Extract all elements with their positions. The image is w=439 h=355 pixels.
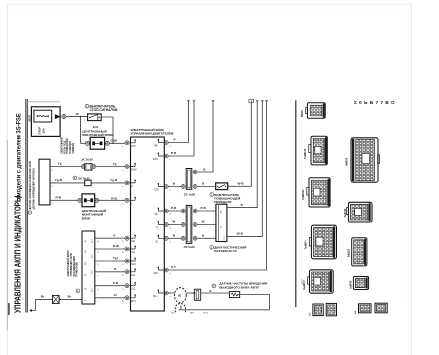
- svg-text:4: 4: [170, 190, 172, 191]
- wire junction drop to relay block R1: [80, 117, 82, 144]
- svg-text:5: 5: [123, 146, 125, 147]
- wire B ECU to DLC3: [168, 237, 216, 239]
- svg-text:9: 9: [97, 275, 99, 276]
- shield terminal box: [194, 289, 200, 300]
- page frame left border: [6, 4, 8, 355]
- connector pair right of relay block R1: [105, 141, 109, 145]
- circled 8 ДАТЧИК ЧАСТОТЫ ВРАЩЕНИЯ label: [212, 284, 216, 288]
- wire sensor to shield box: [186, 292, 194, 294]
- svg-text:W: W: [172, 220, 175, 224]
- connector view I: [352, 238, 367, 266]
- wire Gr meter to ECU: [95, 297, 125, 299]
- connector pair right of relay block R2: [95, 198, 99, 202]
- svg-text:РАЗЪЕМ DLC3: РАЗЪЕМ DLC3: [214, 249, 237, 253]
- svg-text:G-W: G-W: [110, 138, 116, 142]
- junction connector J/C No30 box: [85, 164, 92, 170]
- connector view H: [346, 202, 372, 222]
- svg-text:ПЕРЕДАЧИ: ПЕРЕДАЧИ: [214, 200, 232, 204]
- page frame inner right border: [407, 9, 409, 300]
- wire W-B DLC3 up: [227, 101, 262, 237]
- diagnostic connector DLC3 box: [216, 204, 227, 241]
- speed sensor SP1 dashed circle: [174, 288, 186, 303]
- engine control ECU box U1: [131, 137, 165, 311]
- fuse F1 symbol: [37, 115, 48, 117]
- overdrive main switch SW2: [216, 183, 228, 190]
- svg-text:ПРИБОРОВ): ПРИБОРОВ): [76, 262, 79, 277]
- wire P from ECU up: [168, 101, 188, 143]
- schematic left boundary double line: [25, 99, 27, 313]
- wire P-B ECU to DLC3: [168, 210, 216, 212]
- connector view J: [353, 277, 368, 290]
- connector pair right of J/C No30: [92, 165, 96, 169]
- svg-text:J/C №30: J/C №30: [81, 157, 93, 161]
- wire V-Y from ECU up: [168, 101, 266, 271]
- svg-text:Б⑧Д29: Б⑧Д29: [348, 248, 351, 257]
- svg-text:ВЫХОДНОГО ВАЛА АКПП: ВЫХОДНОГО ВАЛА АКПП: [219, 286, 259, 290]
- svg-text:18: 18: [123, 300, 125, 302]
- svg-text:R-B: R-B: [56, 195, 62, 199]
- svg-text:Ф⑧F29: Ф⑧F29: [345, 157, 348, 166]
- svg-text:W: W: [202, 220, 205, 224]
- connector view D: [309, 225, 336, 259]
- wire G-W from relay block to ECU: [81, 142, 125, 144]
- stop lamp switch SW1 blade: [89, 117, 90, 118]
- ECU U1 right pin connectors: [164, 141, 168, 296]
- AT indicator ECU (combination meter) box: [82, 231, 95, 304]
- wire B DLC3 up: [227, 101, 257, 208]
- svg-text:13: 13: [123, 241, 125, 243]
- wire P-B from ECU up: [168, 101, 194, 157]
- svg-text:Σ0ЬБ77ВО: Σ0ЬБ77ВО: [354, 100, 397, 105]
- connector view G: [351, 138, 380, 182]
- svg-text:W-B: W-B: [237, 232, 244, 236]
- wire W: [66, 116, 88, 118]
- connector pair at J/C28 bottom right: [193, 185, 197, 189]
- connector pair at J/C28 top pin: [193, 170, 197, 174]
- connector pair on wire W: [62, 115, 66, 119]
- svg-text:B-W: B-W: [113, 244, 119, 248]
- svg-text:Тх⑧В176: Тх⑧В176: [304, 148, 307, 159]
- J/C28 box2 connector pairs: [181, 209, 197, 240]
- svg-text:Yg-R: Yg-R: [110, 178, 118, 182]
- svg-text:S12: S12: [131, 241, 136, 243]
- connector pair left of relay block R2: [78, 198, 82, 202]
- svg-text:P: P: [174, 138, 176, 142]
- svg-text:7: 7: [97, 301, 99, 302]
- junction connector J/C No28 box 1: [186, 169, 192, 190]
- ECU U1 right pin stubs: [158, 140, 164, 293]
- svg-text:Ть⑧?19: Ть⑧?19: [344, 208, 347, 218]
- arrow left on ground wire: [29, 309, 32, 312]
- junction connector J/C No30 second box: [85, 180, 91, 186]
- svg-text:15: 15: [97, 251, 99, 253]
- svg-text:14: 14: [123, 251, 125, 253]
- label circled 1 ВЫКЛЮЧАТЕЛЬ ПОВЫШАЮЩЕЙ ПЕРЕДАЧИ: [210, 193, 214, 197]
- svg-text:SLN: SLN: [131, 264, 136, 266]
- svg-text:R: R: [210, 289, 212, 293]
- small connector box at top of W-B wire: [249, 99, 254, 103]
- page frame inner top border: [9, 8, 408, 10]
- svg-text:В⑧Э9: В⑧Э9: [301, 110, 304, 117]
- wire B from J/C28 top up: [197, 101, 213, 173]
- svg-text:3: 3: [170, 241, 172, 242]
- svg-text:Сщ⑧Р47: Сщ⑧Р47: [303, 280, 306, 290]
- svg-text:6: 6: [170, 273, 172, 274]
- svg-text:Ь⑧Р18: Ь⑧Р18: [349, 280, 352, 289]
- wire from ECU to speed sensor: [168, 292, 174, 294]
- svg-text:NC+: NC+: [153, 296, 158, 298]
- svg-text:J/C №28: J/C №28: [184, 193, 196, 197]
- svg-text:OD2: OD2: [154, 190, 159, 192]
- connector pair left of J/C No30: [81, 165, 85, 169]
- svg-text:13: 13: [170, 227, 172, 229]
- svg-text:9: 9: [170, 146, 172, 147]
- svg-text:(ДАТЧИК ЗАПРЕЩЕНИЯ ЗАПУСКА): (ДАТЧИК ЗАПРЕЩЕНИЯ ЗАПУСКА): [32, 168, 35, 209]
- wire Yg from sensor to ECU: [50, 166, 125, 168]
- svg-text:16: 16: [97, 241, 99, 243]
- svg-text:2: 2: [123, 170, 125, 171]
- wire W ECU to DLC3: [168, 224, 216, 226]
- wire Ygr meter to ECU: [95, 260, 125, 262]
- connector view K: [359, 303, 388, 313]
- page frame top border: [7, 3, 411, 5]
- svg-text:16: 16: [123, 274, 125, 276]
- relay block R1 in central junction block: [90, 137, 104, 149]
- svg-text:15: 15: [123, 263, 125, 265]
- ECU U1 left pin stubs: [129, 141, 135, 298]
- svg-text:(ВАТ): (ВАТ): [28, 115, 32, 122]
- wire Yg-R from sensor to ECU: [50, 182, 125, 184]
- connector view E: [308, 270, 334, 293]
- svg-text:MT1: MT1: [131, 301, 136, 303]
- svg-text:БЛОК: БЛОК: [82, 216, 91, 220]
- svg-text:Yg: Yg: [58, 161, 62, 165]
- speed sensor SP1 lower dashed shell: [175, 304, 185, 313]
- svg-text:P-B: P-B: [201, 206, 207, 210]
- svg-text:J/C №28: J/C №28: [183, 245, 195, 249]
- page frame right border: [410, 4, 412, 355]
- svg-text:NC-: NC-: [172, 313, 176, 315]
- wire R-B from sensor to ECU: [50, 199, 125, 201]
- svg-text:P-B: P-B: [113, 281, 119, 285]
- wire P-B meter to ECU: [95, 285, 125, 287]
- svg-text:УПРАВЛЕНИЯ ДВИГАТЕЛЕМ: УПРАВЛЕНИЯ ДВИГАТЕЛЕМ: [130, 132, 174, 136]
- label circled 2: [85, 104, 89, 108]
- wire V meter to ECU: [95, 237, 125, 239]
- svg-text:Сх⑧В122: Сх⑧В122: [302, 189, 305, 200]
- circled 8 near meter: [76, 289, 80, 293]
- connector view A: [306, 103, 326, 118]
- svg-text:P-B: P-B: [171, 151, 177, 155]
- svg-text:NSW: NSW: [131, 170, 137, 172]
- page spine dark mark bottom left: [8, 303, 10, 315]
- svg-text:СТОП-СИГНАЛОВ: СТОП-СИГНАЛОВ: [90, 108, 119, 112]
- circled 8 and label J/C No30 second: [73, 176, 77, 180]
- svg-text:15A: 15A: [42, 127, 46, 133]
- svg-text:(ЛЕВЫЙ): (ЛЕВЫЙ): [72, 143, 75, 154]
- wire Br ground from meter: [35, 298, 82, 300]
- svg-text:(модели с двигателем 3S-FSE: (модели с двигателем 3S-FSE: [15, 113, 23, 198]
- connector pair at J/C28 bottom left: [181, 185, 185, 189]
- svg-text:МОНТАЖНЫЙ БЛОК: МОНТАЖНЫЙ БЛОК: [82, 133, 113, 137]
- svg-text:SL1: SL1: [131, 275, 136, 277]
- page frame left border darker mid segment: [6, 140, 8, 330]
- svg-text:7: 7: [170, 159, 172, 160]
- connector view B: [309, 136, 328, 165]
- wire from stop switch down: [101, 117, 113, 143]
- label circled 1 ДИАГНОСТИЧЕСКИЙ РАЗЪЕМ DLC3: [210, 245, 214, 249]
- svg-text:12: 12: [170, 213, 172, 215]
- fuse F1 STOP 15A box: [34, 110, 52, 122]
- battery fuse block (BAT) outer box: [31, 107, 60, 137]
- stop lamp switch SW1 box: [88, 114, 102, 121]
- separator line between schematic and connector views: [295, 100, 297, 307]
- resistor box on sensor wire: [230, 292, 240, 298]
- svg-text:SP2: SP2: [154, 273, 159, 275]
- svg-text:TC: TC: [156, 228, 159, 230]
- svg-text:CG: CG: [224, 236, 226, 239]
- svg-text:Ygr: Ygr: [113, 256, 119, 260]
- svg-text:11: 11: [97, 263, 99, 265]
- svg-text:УПРАВЛЕНИЯ АКПП И ИНДИКАТОРЫ: УПРАВЛЕНИЯ АКПП И ИНДИКАТОРЫ: [13, 196, 23, 313]
- svg-text:8: 8: [97, 289, 99, 290]
- svg-text:Yg: Yg: [113, 162, 117, 166]
- arrow out of battery box: [55, 114, 61, 119]
- wire B meter to ECU: [95, 271, 125, 273]
- wire sensor return loop: [179, 293, 270, 310]
- svg-text:SL2: SL2: [131, 289, 136, 291]
- svg-text:1: 1: [123, 186, 125, 187]
- svg-text:3: 3: [123, 203, 125, 204]
- svg-text:Ть⑧В44: Ть⑧В44: [305, 240, 308, 250]
- junction connector J/C No28 box 2: [186, 205, 192, 243]
- wire B-W meter to ECU: [95, 248, 125, 250]
- sensor vertical label ДАТЧИК ПОЛОЖЕНИЯ СЕЛЕКТОРА АКПП: [28, 211, 32, 215]
- wire W-B from OD switch up: [228, 101, 252, 187]
- svg-text:74B: 74B: [154, 146, 159, 148]
- svg-text:W-B: W-B: [238, 181, 245, 185]
- connector view C: [307, 178, 330, 207]
- relay block R2 in central junction block: [82, 194, 95, 207]
- ECU U1 left pin names: [131, 146, 137, 303]
- svg-text:W: W: [76, 112, 79, 116]
- wire B ECU to OD switch: [168, 186, 216, 188]
- ECU U1 right pin names: [153, 146, 159, 299]
- park/neutral position sensor box: [39, 159, 50, 205]
- svg-text:STP: STP: [131, 146, 136, 148]
- svg-text:Yg-R: Yg-R: [55, 178, 63, 182]
- svg-text:17: 17: [123, 288, 125, 290]
- svg-text:MSV: MSV: [153, 159, 158, 161]
- ECU U1 left pin connectors: [125, 141, 129, 300]
- faint header rule above battery box: [26, 101, 60, 103]
- connector view F: [313, 303, 337, 315]
- svg-text:R-B: R-B: [111, 196, 117, 200]
- svg-text:2: 2: [170, 296, 172, 297]
- svg-text:P-B: P-B: [171, 206, 177, 210]
- noise filter box on Br wire: [52, 295, 59, 303]
- connector pair left of relay block R1: [85, 141, 89, 145]
